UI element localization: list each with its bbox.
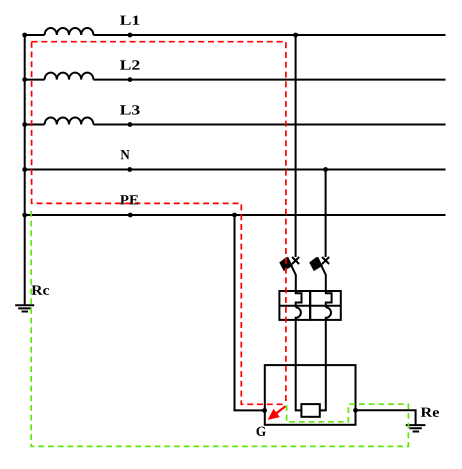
node L1 mid (128, 33, 133, 38)
label Rc (32, 286, 50, 295)
wire L1 tap down (295, 35, 297, 257)
node PE mid (128, 213, 133, 218)
inductor on L3 (45, 117, 94, 124)
fault arrow red (269, 406, 286, 419)
fuse-switch F2 blade (317, 257, 326, 291)
fuse-switch F1 blade (287, 257, 296, 291)
label G (257, 427, 266, 436)
node bus-PE (22, 213, 27, 218)
wire N tap down (325, 170, 327, 258)
label PE (120, 195, 138, 204)
breaker module Q2 magnetic element (326, 307, 331, 320)
enclosure box (265, 365, 356, 425)
inductor on L1 (45, 28, 94, 35)
breaker module Q1 box (279, 291, 310, 320)
node enclosure right bond (353, 408, 358, 413)
wire PE tap to enclosure (235, 215, 265, 410)
fuse-switch F1 fuse body (280, 258, 292, 270)
node L1 tap (293, 33, 298, 38)
breaker module Q1 magnetic element (296, 307, 301, 320)
breaker module Q2 box (310, 291, 341, 320)
wire enclosure to earth Re (356, 410, 416, 425)
node bus-L2 (22, 77, 27, 82)
resistor R load (301, 404, 319, 417)
wire earth loop green dashed (31, 211, 408, 446)
label L2 (120, 60, 140, 69)
node L3 mid (128, 122, 133, 127)
node bus-L1 (22, 33, 27, 38)
wire breaker to resistor left (296, 320, 302, 410)
node bus-N (22, 167, 27, 172)
label N (121, 150, 130, 159)
wire fault loop red dashed PE branch (32, 42, 284, 405)
wire L1 (25, 34, 446, 36)
fuse-switch F2 fuse body (310, 258, 322, 270)
wire breaker to resistor right (320, 320, 326, 410)
fuse-switch F2 contact cross (322, 257, 329, 264)
wire fault loop red dashed (32, 42, 286, 404)
node L2 mid (128, 77, 133, 82)
node PE tap (232, 213, 237, 218)
inductor on L2 (45, 73, 94, 80)
node N mid (127, 167, 132, 172)
ground Rc symbol (15, 305, 34, 311)
fuse-switch F1 contact cross (292, 257, 299, 264)
wire N (25, 169, 446, 171)
label L3 (120, 105, 140, 114)
breaker module Q1 divider (279, 305, 310, 307)
node N tap (323, 167, 328, 172)
label Re (421, 408, 439, 417)
breaker module Q2 divider (310, 305, 341, 307)
breaker module Q1 thermal element (296, 291, 302, 307)
wire L3 (25, 124, 446, 126)
wire L2 (25, 79, 446, 81)
ground Re symbol (406, 425, 426, 431)
node bus-L3 (22, 122, 27, 127)
breaker module Q2 thermal element (326, 291, 332, 307)
wire vertical bus left (24, 35, 26, 305)
node enclosure left bond (262, 408, 267, 413)
label L1 (120, 16, 139, 25)
wire PE (25, 214, 446, 216)
